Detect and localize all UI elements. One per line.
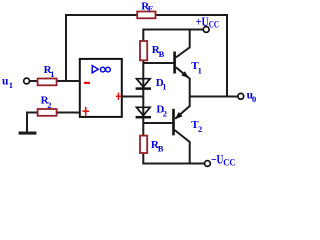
svg-text:+U: +U xyxy=(196,15,209,29)
transistor T2 (PNP) base bar xyxy=(172,109,175,136)
op-amp output plus mark xyxy=(116,95,121,97)
resistor R1 xyxy=(38,79,57,86)
svg-text:−U: −U xyxy=(211,153,223,167)
wire bias chain: -UCC rail, up through RB/D2/D1/RB to +UCC rail xyxy=(143,30,204,164)
diode D2 xyxy=(137,107,151,115)
op-amp gain symbol (triangle + infinity) xyxy=(92,66,98,73)
svg-text:0: 0 xyxy=(252,94,256,104)
svg-text:2: 2 xyxy=(47,100,51,110)
svg-text:1: 1 xyxy=(162,82,166,92)
svg-text:B: B xyxy=(158,143,164,153)
wire op-amp output to diode chain node xyxy=(122,96,144,98)
resistor RB (lower) xyxy=(140,136,147,153)
svg-text:2: 2 xyxy=(198,124,202,134)
wire output rail to u0 terminal xyxy=(190,96,238,98)
wire non-inverting input line (ground up, through R2 to op-amp plus) xyxy=(27,113,80,132)
resistor RB (upper) xyxy=(140,41,147,60)
wire T2 collector to -UCC rail xyxy=(175,130,190,164)
transistor T2 emitter arrow xyxy=(175,112,183,119)
svg-text:1: 1 xyxy=(50,69,54,79)
wire T1 emitter to output rail xyxy=(176,67,190,96)
ground xyxy=(19,132,37,135)
wire T2 base wire xyxy=(143,122,172,124)
node -UCC supply terminal xyxy=(205,161,211,167)
wire T1 collector to +UCC rail xyxy=(176,29,190,58)
wire feedback loop: node A up, across top, down to output rail xyxy=(66,15,227,97)
node u1 input terminal xyxy=(24,78,30,84)
svg-text:1: 1 xyxy=(198,65,202,75)
svg-text:1: 1 xyxy=(9,80,13,90)
svg-text:CC: CC xyxy=(209,21,219,31)
svg-text:2: 2 xyxy=(163,108,167,118)
wire T2 emitter from output rail xyxy=(175,97,190,119)
transistor T1 emitter arrow xyxy=(181,71,188,78)
op-amp plus input mark xyxy=(82,110,89,112)
svg-text:B: B xyxy=(159,49,165,59)
svg-text:F: F xyxy=(148,4,153,14)
wire inverting input line (u1 to op-amp minus) xyxy=(30,80,80,82)
svg-text:CC: CC xyxy=(223,159,235,169)
diode D1 xyxy=(137,79,151,87)
wire T1 base wire xyxy=(143,62,173,64)
op-amp U1 box xyxy=(80,59,122,117)
transistor T1 (NPN) base bar xyxy=(173,52,176,74)
node u0 output terminal xyxy=(238,93,244,99)
resistor RF xyxy=(137,12,155,19)
op-amp minus input mark xyxy=(84,82,90,84)
node +UCC supply terminal xyxy=(203,27,209,33)
resistor R2 xyxy=(38,109,57,116)
